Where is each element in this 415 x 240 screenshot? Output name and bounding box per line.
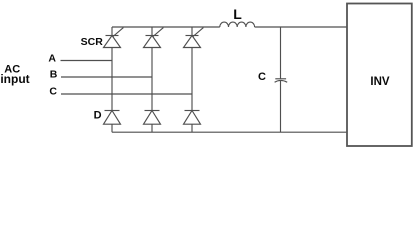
svg-text:C: C bbox=[49, 85, 57, 97]
SCR2 thyristor bbox=[144, 28, 164, 48]
leg 3 wire bbox=[191, 27, 193, 132]
inductor L coil bbox=[220, 22, 255, 27]
capacitor C plates bbox=[275, 78, 286, 80]
svg-text:B: B bbox=[50, 68, 58, 80]
svg-text:L: L bbox=[233, 6, 242, 22]
diode D3 bbox=[184, 111, 201, 125]
SCR1 thyristor bbox=[104, 28, 124, 48]
svg-text:SCR: SCR bbox=[81, 36, 104, 48]
leg 2 wire bbox=[151, 27, 153, 132]
leg 1 wire (SCR1 stub, mid section, diode stub) bbox=[111, 27, 113, 132]
diode D1 bbox=[104, 111, 121, 125]
svg-text:D: D bbox=[94, 110, 102, 122]
svg-text:INV: INV bbox=[370, 76, 390, 88]
wire phase A bbox=[61, 60, 113, 62]
SCR3 thyristor bbox=[184, 28, 204, 48]
svg-text:C: C bbox=[258, 71, 266, 83]
capacitor C branch wire upper bbox=[280, 27, 282, 79]
svg-text:input: input bbox=[0, 72, 29, 86]
INV box bbox=[347, 4, 412, 147]
wire phase B bbox=[61, 76, 152, 78]
svg-text:A: A bbox=[48, 52, 56, 64]
wire phase C bbox=[61, 93, 192, 95]
diode D2 bbox=[144, 111, 161, 125]
top bus wire bbox=[112, 26, 347, 28]
capacitor C branch wire lower bbox=[280, 81, 282, 133]
bottom bus wire bbox=[112, 131, 347, 133]
